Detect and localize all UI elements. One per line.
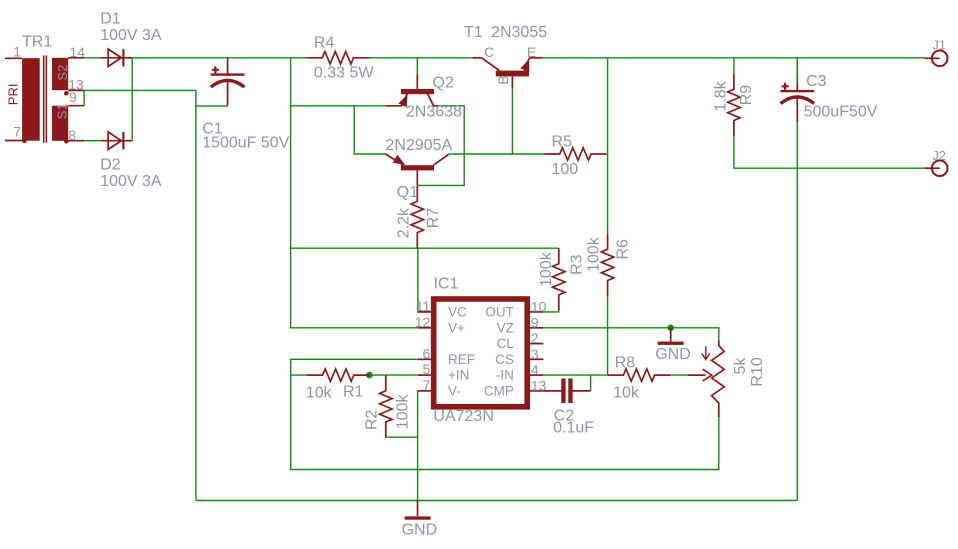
wire CMP to C2 (red lead): [543, 390, 561, 392]
svg-text:2N2905A: 2N2905A: [386, 137, 453, 154]
svg-text:B: B: [495, 75, 511, 84]
op-amp regulator IC1 UA723N body: [434, 299, 528, 407]
svg-text:14: 14: [70, 44, 86, 60]
svg-text:REF: REF: [448, 352, 475, 367]
wire R9 bottom to J2: [734, 136, 925, 168]
svg-text:D1: D1: [100, 10, 121, 27]
wire R9 top from rail: [733, 58, 735, 74]
svg-text:2.2k: 2.2k: [395, 207, 412, 238]
resistor R4: [307, 52, 369, 64]
svg-text:2N3055: 2N3055: [491, 24, 547, 41]
resistor R9: [728, 74, 740, 136]
svg-text:TR1: TR1: [22, 34, 52, 51]
ground GND1 (bottom rail): [405, 501, 431, 520]
svg-text:13: 13: [531, 377, 547, 393]
svg-text:7: 7: [423, 377, 431, 393]
wire R6 bottom to -IN line: [607, 296, 609, 375]
svg-text:R5: R5: [552, 133, 573, 150]
resistor R5: [544, 148, 606, 160]
transformer TR1 core: [44, 55, 47, 142]
potentiometer R10: [688, 340, 724, 417]
wire C3 bottom to ground rail: [796, 122, 798, 500]
svg-text:7: 7: [13, 124, 21, 140]
wire bottom ground rail: [196, 500, 797, 502]
wire R1 to +IN pin: [369, 374, 418, 376]
svg-text:3: 3: [531, 346, 539, 362]
svg-text:D2: D2: [100, 157, 121, 174]
wire R2 bottom to V- line: [386, 436, 418, 438]
capacitor C3: [780, 75, 814, 123]
svg-text:2: 2: [531, 330, 539, 346]
svg-text:OUT: OUT: [485, 305, 514, 320]
svg-text:500uF50V: 500uF50V: [804, 103, 878, 120]
wire main rail left segment (Vin): [132, 57, 308, 59]
wire output rail drop to R6: [607, 58, 609, 234]
svg-text:9: 9: [531, 314, 539, 330]
transformer TR1 polarity dots: [22, 91, 69, 144]
transistor Q2 (2N3638): [386, 74, 438, 107]
wire pin11 riser: [418, 248, 431, 312]
svg-text:100k: 100k: [538, 251, 555, 287]
capacitor C1: [211, 58, 245, 106]
wire pin9 riser to center-tap: [83, 90, 85, 105]
connector J2: [925, 160, 948, 176]
svg-text:GND: GND: [402, 521, 438, 538]
svg-text:J1: J1: [932, 37, 946, 52]
junction dot R1/R2/+IN node: [366, 372, 373, 379]
svg-text:CMP: CMP: [484, 384, 514, 399]
svg-text:1: 1: [13, 43, 21, 59]
svg-text:E: E: [527, 44, 536, 60]
svg-text:+IN: +IN: [448, 368, 469, 383]
svg-text:Q2: Q2: [433, 74, 454, 91]
wire Q2 base to rail: [416, 58, 418, 75]
svg-text:UA723N: UA723N: [433, 408, 493, 425]
svg-text:R6: R6: [615, 239, 632, 260]
wire REF to R1: [291, 374, 307, 376]
svg-text:100V 3A: 100V 3A: [100, 27, 162, 44]
svg-text:V+: V+: [448, 320, 465, 335]
svg-text:CL: CL: [497, 336, 515, 351]
wire D2 anode from pin 8: [84, 140, 101, 142]
wire center-tap pin13 to ground rail: [84, 90, 196, 500]
svg-text:12: 12: [415, 314, 431, 330]
svg-text:1500uF 50V: 1500uF 50V: [202, 134, 290, 151]
resistor R2: [380, 375, 392, 437]
svg-text:1.8k: 1.8k: [713, 80, 730, 111]
wire REF loop to R10 bottom: [291, 359, 719, 469]
svg-text:9: 9: [69, 89, 77, 105]
resistor R6: [601, 234, 613, 296]
wire R3 bottom to OUT pin: [543, 311, 558, 312]
wire Q1 collector to R5 and rail: [449, 153, 544, 155]
transformer TR1 primary winding: [5, 58, 40, 141]
diode D1: [101, 49, 132, 66]
resistor R8: [608, 369, 670, 381]
svg-text:R1: R1: [343, 383, 364, 400]
svg-text:5: 5: [423, 361, 431, 377]
svg-text:CS: CS: [495, 352, 514, 367]
transformer TR1 secondary S2: [52, 58, 84, 91]
svg-text:R7: R7: [425, 208, 442, 229]
svg-text:V-: V-: [448, 384, 461, 399]
wire C3 top green overdraw: [796, 58, 798, 84]
wire VZ line to R10 top: [543, 328, 718, 340]
IC1 right pin stubs: [529, 312, 544, 391]
IC1 left pin stubs: [418, 312, 431, 391]
svg-text:0.33 5W: 0.33 5W: [314, 64, 374, 81]
svg-text:11: 11: [416, 298, 431, 314]
wire main rail output segment (T1 emitter to J1): [543, 57, 925, 59]
svg-text:Q1: Q1: [397, 184, 418, 201]
svg-text:IC1: IC1: [434, 276, 459, 293]
svg-text:PRI: PRI: [6, 84, 21, 106]
wire R8 to R10 wiper: [670, 374, 690, 376]
svg-text:R4: R4: [314, 34, 335, 51]
svg-text:6: 6: [423, 345, 431, 361]
svg-text:C3: C3: [806, 73, 827, 90]
resistor R7: [411, 186, 423, 248]
transformer TR1 secondary S1: [52, 106, 84, 141]
svg-text:-IN: -IN: [496, 368, 514, 383]
wire C3 top from rail: [796, 58, 798, 75]
svg-text:VC: VC: [448, 305, 467, 320]
svg-text:100V 3A: 100V 3A: [100, 173, 162, 190]
svg-text:4: 4: [531, 362, 539, 378]
svg-text:100k: 100k: [395, 394, 412, 430]
svg-text:C: C: [484, 44, 494, 60]
wire V- down to ground rail: [417, 391, 419, 501]
svg-text:VZ: VZ: [497, 320, 514, 335]
svg-text:J2: J2: [932, 148, 946, 163]
wire ground rail to C1 minus: [196, 105, 228, 107]
connector J1: [925, 51, 948, 67]
svg-text:GND: GND: [655, 346, 691, 363]
svg-text:T1: T1: [464, 24, 483, 41]
wire C2 right riser to -IN: [590, 375, 592, 391]
svg-text:10: 10: [531, 298, 547, 314]
svg-text:R9: R9: [738, 85, 755, 106]
wire R7/R3 node line: [291, 247, 559, 249]
wire Q2 emitter to Vin rail: [291, 105, 386, 107]
diode D2: [101, 132, 132, 149]
svg-text:R8: R8: [615, 354, 636, 371]
wire Vin rail down-left: [291, 58, 418, 328]
ground GND2 (VZ line): [658, 328, 684, 345]
svg-text:10k: 10k: [306, 385, 333, 402]
svg-text:8: 8: [68, 127, 76, 143]
svg-text:S1: S1: [54, 103, 69, 119]
svg-text:R3: R3: [568, 254, 585, 275]
resistor R3: [553, 248, 565, 310]
svg-text:5k: 5k: [732, 357, 749, 375]
svg-text:R2: R2: [364, 409, 381, 430]
svg-text:10k: 10k: [613, 384, 640, 401]
svg-text:100: 100: [552, 161, 579, 178]
capacitor C2: [561, 379, 590, 404]
junction dot VZ/GND node: [667, 325, 674, 332]
transistor Q1 (2N2905A): [386, 154, 449, 185]
svg-text:0.1uF: 0.1uF: [553, 420, 594, 437]
wire T1 base drop: [511, 88, 513, 154]
svg-text:2N3638: 2N3638: [406, 104, 462, 121]
wire -IN line: [543, 374, 608, 376]
resistor R1: [307, 369, 369, 381]
wire D2 cathode riser: [131, 58, 134, 141]
svg-text:100k: 100k: [585, 236, 602, 272]
wire main rail after R4 to T1 collector: [369, 57, 473, 59]
svg-text:R10: R10: [749, 357, 766, 386]
transistor T1 (2N3055): [473, 58, 543, 89]
wire D1 anode from pin 14: [84, 57, 101, 59]
wire Q2 collector to Q1 base: [417, 106, 464, 186]
wire branch to Q1 emitter: [354, 106, 385, 154]
